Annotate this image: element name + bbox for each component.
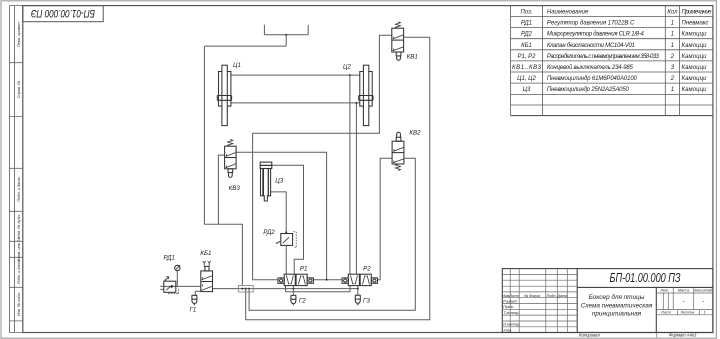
wire gauge stem: [176, 271, 178, 287]
wire P1 bottom exhaust stub: [285, 286, 287, 292]
row КБ1: [521, 43, 707, 49]
cylinder C2: [359, 65, 373, 125]
row РД1: [521, 21, 709, 27]
wire main line start tick: [160, 288, 163, 290]
junction main line to inner bus: [248, 288, 250, 290]
svg-text:Ц2: Ц2: [343, 64, 351, 71]
wire cylinder top line: [231, 74, 360, 76]
svg-text:Т.контр.: Т.контр.: [503, 310, 519, 315]
wire tap bottom line to P2: [355, 103, 357, 274]
silencer G2: [291, 295, 297, 305]
svg-text:РД1: РД1: [164, 255, 175, 262]
svg-text:Н.контр.: Н.контр.: [503, 322, 520, 327]
svg-text:Подп.: Подп.: [546, 294, 556, 298]
table bottom: [511, 115, 713, 117]
svg-text:№ докум.: № докум.: [524, 294, 541, 298]
svg-text:Копировал: Копировал: [579, 332, 600, 337]
wire P1 pilot link to P2: [313, 279, 342, 281]
svg-text:КБ1: КБ1: [521, 43, 532, 49]
svg-text:1: 1: [671, 21, 674, 27]
silencer G1: [192, 295, 198, 305]
svg-text:Р1: Р1: [300, 266, 308, 273]
svg-text:КБ1: КБ1: [200, 250, 211, 257]
table horizontals: [511, 17, 713, 106]
wire main supply line: [160, 286, 358, 288]
row Ц1 Ц2: [517, 76, 707, 82]
svg-text:Справ. №: Справ. №: [16, 80, 21, 98]
svg-text:Г1: Г1: [190, 307, 197, 314]
svg-text:Инв. № дубл.: Инв. № дубл.: [16, 214, 21, 238]
valve P1: [278, 274, 313, 285]
wire P2 silencer stub: [357, 286, 359, 296]
wire KV1 left port down: [253, 35, 392, 280]
svg-text:принципиальная: принципиальная: [592, 311, 642, 318]
rotated designation box (grafa 26): [23, 6, 103, 22]
wire supply to left: [204, 45, 286, 47]
row РД2: [521, 32, 707, 38]
lit massa masshtab section lines: [656, 293, 713, 315]
svg-text:РД2: РД2: [263, 229, 275, 236]
svg-text:Г3: Г3: [363, 298, 370, 305]
svg-text:-: -: [683, 299, 685, 305]
limit switch KV3: [225, 139, 237, 177]
svg-text:Листов: Листов: [680, 311, 695, 315]
svg-text:Схема пневматическая: Схема пневматическая: [581, 303, 653, 310]
wire KV2 left port to P2 right pilot: [378, 158, 393, 280]
row КВ1 КВ3: [512, 64, 707, 71]
svg-text:БП-01.00.000 ПЭ: БП-01.00.000 ПЭ: [31, 7, 95, 19]
junction P1 exhaust on main line: [292, 288, 294, 290]
supply bracket: [264, 25, 308, 35]
svg-text:Ц1: Ц1: [233, 62, 241, 69]
row Ц3: [523, 87, 708, 93]
svg-text:Поз.: Поз.: [520, 10, 532, 16]
junction cylinder top line tap: [349, 74, 351, 76]
svg-text:1: 1: [671, 43, 674, 49]
wire C3 top port to P1: [272, 165, 304, 274]
svg-text:1: 1: [671, 32, 674, 38]
wire KV1 right port to outer bus: [246, 37, 430, 319]
junction inside RD1: [172, 285, 174, 287]
svg-text:РД1: РД1: [521, 21, 532, 27]
svg-text:Камоцци: Камоцци: [682, 65, 708, 71]
svg-text:Кол: Кол: [667, 10, 678, 16]
wire supply drop: [285, 35, 287, 46]
svg-text:Лист: Лист: [508, 294, 519, 298]
svg-text:1: 1: [671, 87, 674, 93]
svg-text:Микрорегулятор давления CLR 1/: Микрорегулятор давления CLR 1/8-4: [547, 32, 645, 38]
svg-text:-: -: [702, 299, 704, 305]
svg-text:Камоцци: Камоцци: [682, 43, 708, 49]
svg-text:Пневмоцилиндр 25N2А25А050: Пневмоцилиндр 25N2А25А050: [547, 87, 630, 93]
svg-text:Распределитель с пневмоуправле: Распределитель с пневмоуправлением 358-0…: [547, 54, 660, 60]
svg-text:БП-01.00.000 ПЗ: БП-01.00.000 ПЗ: [610, 271, 681, 285]
svg-text:Р1, Р2: Р1, Р2: [517, 54, 536, 60]
svg-text:Подп. и дата: Подп. и дата: [16, 259, 21, 284]
top frame continues over strip: [9, 5, 22, 7]
valve P2: [342, 274, 377, 285]
junction P2 exhaust on main line: [357, 288, 359, 290]
wire supply bottom jog: [204, 224, 242, 285]
cylinder C3: [260, 162, 272, 201]
svg-text:2: 2: [670, 76, 675, 82]
signature labels: [503, 298, 520, 332]
left part row lines: [502, 274, 577, 326]
junction main line to outer bus: [245, 288, 247, 290]
svg-text:РД2: РД2: [521, 32, 533, 38]
junction cylinder bottom line tap: [355, 102, 357, 104]
left strip cell dividers: [9, 63, 22, 321]
svg-text:КВ1..КВ3: КВ1..КВ3: [512, 65, 542, 71]
left columns verticals: [510, 269, 567, 333]
safety valve KB1: [201, 261, 213, 291]
svg-text:Камоцци: Камоцци: [682, 54, 708, 60]
svg-text:Пров.: Пров.: [503, 304, 514, 309]
svg-text:Регулятор давления 17022В.С: Регулятор давления 17022В.С: [547, 21, 635, 27]
svg-text:Р2: Р2: [363, 266, 371, 273]
svg-text:1: 1: [703, 311, 705, 315]
micro regulator RD2: [276, 232, 296, 248]
document name: [581, 293, 653, 318]
svg-text:Лист: Лист: [660, 311, 671, 315]
title block outer border: [502, 269, 713, 333]
svg-text:Формат А4х3: Формат А4х3: [669, 332, 697, 337]
small header labels: [502, 294, 567, 298]
svg-text:Камоцци: Камоцци: [682, 32, 708, 38]
limit switch KV2: [392, 132, 404, 170]
designation cell bottom: [577, 286, 713, 288]
pressure regulator RD1: [164, 277, 179, 294]
svg-text:Масштаб: Масштаб: [694, 289, 713, 293]
silencer G3: [355, 295, 361, 305]
table verticals: [511, 6, 680, 116]
pressure gauge: [175, 265, 181, 271]
format separator tick: [656, 333, 658, 338]
junction KV3 line to pilot line: [326, 279, 328, 281]
svg-text:2: 2: [670, 54, 675, 60]
kopiroval / format: [579, 332, 697, 337]
wire cylinder bottom line: [231, 102, 360, 104]
junction manifold box: [238, 285, 253, 292]
svg-text:Камоцци: Камоцци: [682, 87, 708, 93]
svg-text:КВ1: КВ1: [407, 54, 418, 61]
svg-text:Пневмакс: Пневмакс: [682, 21, 709, 27]
svg-text:Боксер для птицы: Боксер для птицы: [589, 293, 645, 301]
svg-text:Инв. № подл.: Инв. № подл.: [16, 292, 21, 316]
svg-text:Ц1, Ц2: Ц1, Ц2: [517, 76, 536, 82]
svg-text:Ц3: Ц3: [275, 178, 283, 185]
left margin strip outer line: [9, 6, 14, 333]
wire KB1 exhaust to G1: [195, 291, 201, 295]
wire C3 bottom port through RD2 to P1: [271, 192, 287, 274]
wire exhaust line2: [286, 286, 351, 292]
junction RD2 inlet: [285, 231, 287, 233]
lit massa masshtab labels: [659, 289, 713, 315]
svg-text:Г2: Г2: [299, 298, 306, 305]
wire tap top line to P2: [349, 75, 351, 274]
svg-text:КВ2: КВ2: [409, 130, 421, 137]
left strip bottom joins frame bottom: [9, 332, 22, 334]
row Р1 Р2: [517, 54, 707, 60]
svg-text:Концевой выключатель 234-985: Концевой выключатель 234-985: [547, 64, 634, 71]
wire P1 silencer stub: [292, 286, 294, 296]
wire supply left vertical: [203, 46, 205, 224]
svg-text:Масса: Масса: [678, 289, 689, 293]
cylinder C1: [217, 65, 231, 125]
svg-text:Разраб.: Разраб.: [503, 298, 517, 303]
svg-text:КВ3: КВ3: [229, 185, 241, 192]
table header: [520, 10, 678, 16]
svg-text:Утв.: Утв.: [503, 327, 512, 332]
junction at supply bracket: [285, 34, 287, 36]
svg-text:Перв. примен.: Перв. примен.: [16, 21, 21, 47]
wire KV3 output to pilots: [236, 152, 327, 279]
svg-text:Подп. и дата: Подп. и дата: [16, 176, 21, 201]
svg-text:Примечание: Примечание: [682, 10, 713, 16]
junction supply to main line: [241, 288, 243, 290]
svg-text:Клапан безопасности МС104-V01: Клапан безопасности МС104-V01: [547, 43, 635, 49]
svg-text:Пневмоцилиндр 61М6Р040А0100: Пневмоцилиндр 61М6Р040А0100: [547, 76, 638, 82]
wire KV2 right port to inner bus: [249, 158, 415, 310]
svg-text:Лит.: Лит.: [659, 289, 669, 293]
limit switch KV1: [392, 22, 404, 61]
wire KV3 input branch: [218, 155, 224, 224]
svg-text:Наименование: Наименование: [547, 10, 589, 16]
svg-text:Ц3: Ц3: [523, 87, 531, 93]
svg-text:Камоцци: Камоцци: [682, 76, 708, 82]
svg-text:Взам. инв. №: Взам. инв. №: [16, 236, 21, 261]
svg-text:Дата: Дата: [556, 294, 567, 298]
title block main verticals: [577, 269, 656, 333]
